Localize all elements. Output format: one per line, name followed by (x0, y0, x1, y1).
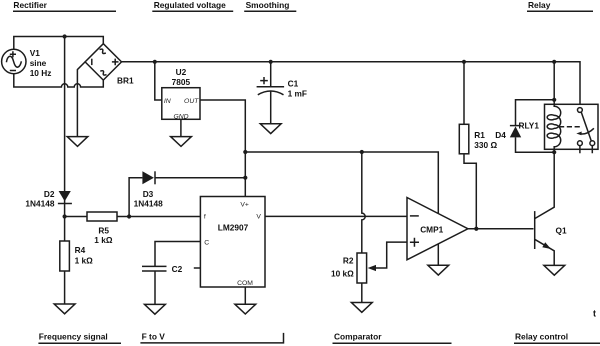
svg-text:OUT: OUT (184, 98, 199, 105)
relay coil (547, 100, 561, 152)
svg-text:C: C (204, 240, 209, 247)
label R5 1 kohm (94, 226, 113, 245)
svg-text:Regulated voltage: Regulated voltage (154, 0, 226, 10)
svg-text:U2: U2 (176, 67, 187, 77)
wire U2 OUT down to LM2907 V+ (200, 100, 245, 197)
svg-text:Comparator: Comparator (334, 332, 382, 342)
relay RLY1 box (545, 104, 599, 149)
label D2 1N4148 (25, 189, 54, 209)
wire main positive bus from BR1 to relay switch (122, 62, 581, 108)
junction dot R5/D3 branch (127, 214, 131, 218)
relay switch common contact (578, 108, 583, 113)
svg-text:C1: C1 (288, 78, 299, 88)
ground at R4 (54, 304, 75, 314)
section label Relay control (514, 332, 600, 344)
unconnected stub pin on LM2907 (194, 267, 201, 269)
wire comparator output to Q1 base (468, 228, 534, 230)
ground at U2 (171, 137, 192, 147)
wire BR1 minus corner to ground (77, 62, 85, 137)
section label Smoothing (244, 0, 296, 11)
relay switch NC contact (578, 141, 583, 146)
svg-text:330 Ω: 330 Ω (474, 140, 497, 150)
svg-text:D4: D4 (495, 130, 506, 140)
svg-text:Frequency signal: Frequency signal (39, 332, 108, 342)
junction dot rail at U2 OUT drop (243, 150, 247, 154)
junction dot D3 cathode to V+ (243, 176, 247, 180)
diode D3 (129, 171, 245, 216)
IC LM2907 box (200, 197, 265, 288)
svg-text:Relay: Relay (528, 0, 551, 10)
ground at BR1 minus (67, 137, 88, 147)
resistor R5 (65, 212, 201, 221)
junction dot relay coil top / D4 (552, 98, 556, 102)
junction dot comparator output / R1 (474, 227, 478, 231)
svg-text:R4: R4 (75, 245, 86, 255)
junction dot bus to R1 (462, 60, 466, 64)
regulator U2 box (162, 88, 200, 120)
resistor R1 (459, 62, 476, 229)
svg-text:10 Hz: 10 Hz (30, 68, 52, 78)
capacitor C1 (257, 62, 285, 124)
ground at C2 (145, 304, 166, 314)
junction dot bus to C1 (269, 60, 273, 64)
ground at CMP1 (428, 265, 449, 275)
svg-text:Relay control: Relay control (515, 332, 568, 342)
relay switch NO contact (590, 141, 595, 146)
svg-text:Q1: Q1 (556, 226, 567, 236)
svg-text:Smoothing: Smoothing (246, 0, 290, 10)
svg-text:COM: COM (237, 280, 253, 287)
relay dashed actuator line (559, 126, 582, 128)
junction dot bus to relay coil (552, 60, 556, 64)
svg-text:1N4148: 1N4148 (134, 199, 163, 209)
svg-text:t: t (593, 309, 596, 319)
rail +5V from U2 OUT to comparator top (245, 152, 438, 214)
ground at Q1 emitter (544, 265, 565, 275)
junction dot rail to R2 (360, 150, 364, 154)
svg-text:1N4148: 1N4148 (25, 199, 54, 209)
svg-text:LM2907: LM2907 (218, 222, 249, 232)
diode D2 (58, 191, 72, 204)
svg-text:V1: V1 (30, 48, 41, 58)
wire V1 minus to BR1 bottom corner (hops over two verticals) (14, 74, 104, 87)
ground at R2 (351, 303, 372, 313)
svg-text:F to V: F to V (142, 332, 166, 342)
section label Rectifier (13, 0, 116, 11)
section label Relay (527, 0, 593, 11)
svg-text:f: f (204, 213, 206, 220)
junction dot bus to U2 IN (153, 60, 157, 64)
label R2 10 kohm (331, 255, 354, 278)
flyback diode D4 (510, 100, 554, 152)
capacitor C2 (142, 266, 167, 304)
svg-text:C2: C2 (172, 264, 183, 274)
relay contact pin stubs (580, 146, 592, 154)
svg-text:1 kΩ: 1 kΩ (94, 235, 113, 245)
svg-text:R2: R2 (343, 255, 354, 265)
wire LM2907 C pin to C2 (155, 242, 200, 267)
comparator CMP1 (407, 198, 468, 260)
svg-text:1 kΩ: 1 kΩ (75, 255, 94, 265)
wire V1 plus to BR1 top corner (14, 37, 104, 50)
svg-text:R1: R1 (474, 130, 485, 140)
wire coil top from bus (553, 62, 555, 100)
bridge rectifier BR1 (85, 44, 121, 80)
svg-text:10 kΩ: 10 kΩ (331, 268, 354, 278)
wire bus tap to U2 IN (155, 62, 162, 100)
svg-text:7805: 7805 (172, 77, 191, 87)
svg-text:Rectifier: Rectifier (13, 0, 47, 10)
svg-text:IN: IN (164, 98, 171, 105)
section label Frequency signal (38, 332, 121, 344)
resistor R4 (60, 217, 70, 305)
wire U2 GND to ground (180, 119, 182, 136)
potentiometer R2 (with hop over V wire) (357, 152, 407, 303)
relay switch lever (581, 112, 591, 141)
section label Comparator (333, 332, 452, 344)
svg-text:CMP1: CMP1 (420, 224, 443, 234)
wire LM2907 V output to comparator minus input (265, 215, 407, 217)
wire frequency node down to D2 and R5 junction (64, 37, 66, 217)
relay lever arrow (576, 128, 594, 135)
svg-text:BR1: BR1 (117, 76, 134, 86)
svg-text:RLY1: RLY1 (519, 120, 540, 130)
junction dot relay coil bottom / D4 / Q1 collector (552, 150, 556, 154)
svg-text:V+: V+ (240, 201, 249, 208)
label D3 1N4148 (134, 189, 163, 209)
svg-text:1 mF: 1 mF (288, 88, 307, 98)
ground at C1 (260, 124, 281, 134)
label R4 1 kohm (75, 245, 94, 265)
svg-text:D2: D2 (44, 189, 55, 199)
wire comparator ground (437, 244, 439, 265)
junction dot D2/R4/R5 (63, 214, 67, 218)
label V1 sine 10 Hz (30, 48, 52, 78)
svg-text:sine: sine (30, 58, 47, 68)
label U2 7805 (172, 67, 191, 87)
voltage source V1 (2, 49, 26, 73)
wire LM2907 COM to ground (244, 287, 246, 304)
transistor Q1 (535, 152, 555, 265)
ground at LM2907 COM (235, 304, 256, 314)
section label Regulated voltage (152, 0, 233, 11)
section label F to V (140, 332, 283, 343)
svg-text:V: V (256, 213, 261, 220)
junction dot V1/BR1/D2 node (63, 34, 67, 38)
svg-text:D3: D3 (143, 189, 154, 199)
label R1 330 ohm (474, 130, 497, 150)
label C1 1 mF (288, 78, 307, 98)
